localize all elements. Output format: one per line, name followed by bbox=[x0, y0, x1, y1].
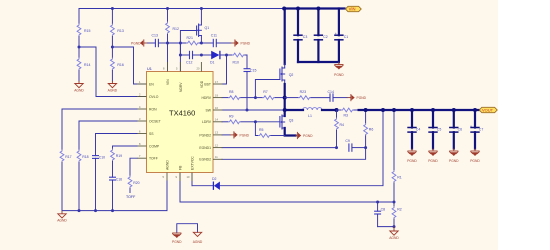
capacitor C15 bbox=[244, 55, 257, 110]
node R4 top bbox=[335, 108, 339, 112]
svg-text:EXTVCC: EXTVCC bbox=[190, 156, 194, 170]
svg-text:+: + bbox=[335, 32, 337, 36]
resistor R13 bbox=[111, 9, 124, 48]
wire AGND rail bbox=[62, 181, 167, 211]
wire LDRV to Q3 gate bbox=[255, 121, 280, 123]
svg-text:R23: R23 bbox=[300, 90, 306, 94]
svg-text:C11: C11 bbox=[211, 33, 217, 37]
node VDD row junctions bbox=[166, 42, 169, 45]
wire PGND/AGND tie bbox=[177, 224, 198, 233]
svg-text:PGND: PGND bbox=[407, 159, 417, 163]
resistor R12 bbox=[166, 9, 179, 44]
svg-text:C9: C9 bbox=[345, 139, 350, 143]
svg-text:C10: C10 bbox=[99, 156, 105, 160]
svg-text:VIN: VIN bbox=[349, 7, 356, 12]
pin OCSET 3 bbox=[137, 117, 161, 124]
svg-text:LDRV: LDRV bbox=[202, 120, 212, 124]
ground PGND input caps bbox=[334, 62, 344, 77]
capacitor C14 snubber bbox=[328, 90, 348, 102]
svg-text:R17: R17 bbox=[65, 155, 71, 159]
ground PGND C6 bbox=[449, 149, 459, 163]
wire OVLO route bbox=[79, 47, 147, 97]
wire NDRV node to C12 row bbox=[179, 43, 181, 55]
pin EN 1 bbox=[137, 80, 154, 87]
wire EGND2 row bbox=[222, 148, 366, 160]
svg-text:Q1: Q1 bbox=[205, 26, 210, 30]
pin NDRV top bbox=[176, 62, 183, 92]
wire FB route bbox=[180, 173, 394, 203]
svg-text:R6: R6 bbox=[369, 128, 374, 132]
capacitor C13 bbox=[148, 33, 168, 47]
svg-text:EN: EN bbox=[149, 82, 154, 86]
svg-text:RON: RON bbox=[149, 107, 157, 111]
svg-text:AGND: AGND bbox=[389, 236, 399, 240]
svg-text:PGND: PGND bbox=[303, 134, 313, 138]
svg-text:PGND: PGND bbox=[240, 133, 250, 137]
svg-text:AGND: AGND bbox=[74, 89, 84, 93]
svg-text:R9: R9 bbox=[229, 114, 234, 118]
svg-text:VOUT: VOUT bbox=[482, 108, 494, 113]
resistor R8 on HDRV bbox=[222, 90, 255, 99]
pin VDD top bbox=[197, 62, 204, 88]
node SW bottom bbox=[283, 108, 287, 112]
node C15 to SW line bbox=[246, 109, 249, 112]
node C12 left bbox=[179, 54, 182, 57]
node Q2 gate junction bbox=[254, 96, 257, 99]
capacitor C6 bbox=[449, 108, 462, 149]
svg-text:AGND: AGND bbox=[165, 160, 169, 170]
svg-text:PGND2: PGND2 bbox=[199, 133, 211, 137]
wire EGND1 row bbox=[222, 147, 337, 149]
svg-text:OVLO: OVLO bbox=[149, 95, 159, 99]
svg-text:TX4160: TX4160 bbox=[169, 108, 195, 117]
ground PGND left of C13 bbox=[131, 39, 148, 46]
svg-text:C4: C4 bbox=[416, 127, 421, 131]
node R6 top bbox=[364, 108, 368, 112]
wire Q2 drain column thick bbox=[284, 9, 286, 65]
port VIN bbox=[344, 6, 361, 11]
svg-text:R21: R21 bbox=[187, 36, 193, 40]
svg-text:Q3: Q3 bbox=[289, 118, 294, 122]
pin EGND1 12 bbox=[199, 143, 222, 150]
svg-text:AGND: AGND bbox=[57, 219, 67, 223]
svg-text:TOFF: TOFF bbox=[126, 195, 136, 199]
ground PGND right of C11 bbox=[231, 39, 251, 46]
node R12 top bbox=[166, 7, 169, 10]
pin EXTVCC bottom bbox=[187, 156, 195, 181]
node Q3 gate junction bbox=[254, 120, 257, 123]
wire Q3 drain thick bbox=[284, 110, 286, 116]
pin AGND bottom bbox=[163, 160, 170, 181]
capacitor C10 on SS bbox=[92, 134, 137, 211]
pin OVLO 2 bbox=[137, 92, 159, 99]
inductor L1 bbox=[303, 108, 322, 118]
svg-text:R2: R2 bbox=[397, 207, 402, 211]
svg-text:C5: C5 bbox=[437, 127, 442, 131]
wire SW node column thick bbox=[284, 84, 286, 110]
svg-text:R19: R19 bbox=[116, 154, 122, 158]
resistor R4 bbox=[335, 110, 344, 148]
capacitor C2 bbox=[314, 9, 328, 63]
svg-text:D1: D1 bbox=[210, 61, 215, 65]
svg-text:R13: R13 bbox=[117, 29, 123, 33]
svg-text:NDRV: NDRV bbox=[179, 82, 183, 92]
svg-text:EGND1: EGND1 bbox=[199, 146, 211, 150]
pin LDRV 14 bbox=[202, 118, 222, 125]
node R13/R16 junction bbox=[111, 46, 114, 49]
node R2 bottom bbox=[393, 225, 396, 228]
resistor R21 bbox=[168, 36, 214, 45]
node C16 bottom bbox=[111, 209, 114, 212]
svg-text:C1: C1 bbox=[344, 35, 349, 39]
capacitor C12 bbox=[180, 51, 201, 65]
resistor R1 feedback top bbox=[392, 110, 402, 202]
resistor R17 on RON bbox=[60, 109, 137, 211]
svg-text:R10: R10 bbox=[233, 61, 239, 65]
pin COMP 8 bbox=[137, 142, 160, 149]
svg-text:R4: R4 bbox=[340, 123, 345, 127]
svg-text:EGND2: EGND2 bbox=[199, 158, 211, 162]
resistor R9 on LDRV bbox=[222, 114, 255, 123]
svg-text:C2: C2 bbox=[323, 35, 328, 39]
node SW/R7 junction bbox=[283, 96, 287, 100]
transistor Q2 bbox=[280, 64, 294, 84]
capacitor C11 bbox=[211, 33, 231, 47]
svg-text:PGND: PGND bbox=[449, 159, 459, 163]
op-amp U1 TX4160 controller bbox=[147, 67, 214, 173]
capacitor C3 bbox=[293, 9, 307, 63]
svg-text:C7: C7 bbox=[479, 127, 484, 131]
svg-text:C6: C6 bbox=[458, 127, 463, 131]
node BST/boot junction bbox=[225, 54, 228, 57]
node R15/R14 junction bbox=[78, 46, 81, 49]
ground PGND C5 bbox=[428, 149, 438, 163]
node R18 bottom bbox=[78, 209, 81, 212]
svg-text:PGND: PGND bbox=[428, 159, 438, 163]
pin RON 4 bbox=[137, 105, 157, 112]
svg-text:PGND: PGND bbox=[334, 73, 344, 77]
svg-text:Q2: Q2 bbox=[289, 73, 294, 77]
node C8 top bbox=[376, 201, 379, 204]
svg-text:R5: R5 bbox=[259, 128, 264, 132]
svg-text:PGND: PGND bbox=[470, 159, 480, 163]
svg-text:+: + bbox=[470, 125, 472, 129]
svg-text:C12: C12 bbox=[186, 61, 192, 65]
ground PGND C4 bbox=[407, 149, 417, 163]
capacitor C1 polarized bbox=[334, 9, 348, 63]
pin SS 6 bbox=[137, 129, 154, 136]
ground AGND tie bbox=[193, 232, 203, 244]
wire BST riser bbox=[222, 55, 227, 84]
pin HDRV 19 bbox=[201, 93, 222, 100]
wire EXTVCC riser from output bbox=[220, 110, 383, 186]
diode D2 bbox=[192, 177, 220, 190]
svg-text:U1: U1 bbox=[147, 67, 152, 71]
svg-text:R18: R18 bbox=[82, 155, 88, 159]
ground PGND Q3 source bbox=[296, 132, 314, 139]
node C2 top bbox=[316, 7, 320, 11]
svg-text:SS: SS bbox=[149, 132, 154, 136]
svg-text:R14: R14 bbox=[84, 63, 90, 67]
svg-text:C13: C13 bbox=[152, 33, 158, 37]
resistor R6 sense leg bbox=[364, 110, 374, 148]
resistor R10 bbox=[227, 53, 248, 64]
pin PGND2 13 bbox=[199, 131, 222, 138]
svg-text:R7: R7 bbox=[263, 90, 268, 94]
ground AGND feedback bbox=[389, 227, 399, 240]
svg-text:C8: C8 bbox=[381, 207, 386, 211]
capacitor C5 bbox=[428, 108, 441, 149]
wire EN route bbox=[112, 47, 146, 84]
ground PGND C7 bbox=[470, 149, 480, 163]
pin SW 16 bbox=[206, 106, 223, 113]
wire L1 to R3 thick bbox=[322, 109, 337, 111]
svg-text:PGND: PGND bbox=[241, 42, 251, 46]
svg-text:COMP: COMP bbox=[149, 144, 160, 148]
transistor Q3 bbox=[280, 115, 294, 130]
node R13 top bbox=[111, 7, 114, 10]
resistor R5 gate pulldown Q3 bbox=[255, 122, 284, 138]
node C3 top bbox=[296, 7, 300, 11]
svg-text:OCSET: OCSET bbox=[149, 119, 161, 123]
diode D1 bbox=[201, 51, 226, 65]
node VDD col / C12 right bbox=[200, 54, 203, 57]
wire EXTVCC pin drop bbox=[191, 173, 193, 186]
pin TOFF 7 bbox=[137, 154, 158, 161]
svg-text:R15: R15 bbox=[84, 29, 90, 33]
svg-text:C15: C15 bbox=[250, 69, 256, 73]
svg-text:VDD: VDD bbox=[200, 80, 204, 88]
svg-text:PGND: PGND bbox=[131, 42, 141, 46]
wire SW to L1 thick bbox=[285, 109, 303, 111]
ground AGND under R16 bbox=[108, 81, 118, 93]
ground AGND rail symbol bbox=[57, 211, 67, 223]
svg-text:R3: R3 bbox=[344, 114, 349, 118]
node EXTVCC riser top bbox=[381, 108, 385, 112]
svg-text:AGND: AGND bbox=[108, 89, 118, 93]
svg-text:C14: C14 bbox=[328, 90, 334, 94]
pin EGND2 11 bbox=[199, 155, 222, 162]
wire Q3 source thick to ground bbox=[285, 128, 296, 136]
wire output rail thick bbox=[359, 109, 479, 111]
capacitor C8 bbox=[374, 202, 385, 227]
wire Q1 gate to NDRV column bbox=[180, 31, 196, 72]
svg-text:VIN: VIN bbox=[166, 79, 170, 85]
resistor R18 on OCSET bbox=[77, 121, 137, 211]
ground PGND tie bbox=[172, 233, 182, 244]
svg-text:R12: R12 bbox=[173, 27, 179, 31]
resistor R23 snubber bbox=[285, 90, 330, 99]
node input rail start bbox=[282, 7, 286, 11]
svg-text:R20: R20 bbox=[133, 181, 139, 185]
svg-text:SW: SW bbox=[206, 108, 212, 112]
svg-text:R1: R1 bbox=[397, 175, 402, 179]
resistor R19 on COMP bbox=[111, 146, 137, 177]
svg-text:FB: FB bbox=[178, 165, 182, 170]
pin VIN top bbox=[163, 62, 170, 85]
pin FB bottom bbox=[176, 165, 183, 181]
svg-text:HDRV: HDRV bbox=[201, 96, 211, 100]
svg-text:PGND: PGND bbox=[172, 240, 182, 244]
svg-text:C16: C16 bbox=[116, 177, 122, 181]
transistor Q1 bbox=[197, 9, 210, 44]
port VOUT bbox=[479, 107, 497, 112]
svg-text:PGND: PGND bbox=[357, 96, 367, 100]
resistor R15 bbox=[77, 9, 90, 48]
resistor R2 feedback bottom bbox=[392, 202, 402, 227]
node R1 top bbox=[392, 108, 396, 112]
svg-text:R8: R8 bbox=[229, 90, 234, 94]
svg-text:BST: BST bbox=[204, 82, 211, 86]
svg-text:C3: C3 bbox=[303, 35, 308, 39]
node R4/C9 junction bbox=[335, 146, 338, 149]
pin BST 17 bbox=[204, 80, 222, 87]
capacitor C9 bbox=[345, 139, 365, 152]
node VDD/Q1 top bbox=[200, 7, 203, 10]
resistor R14 bbox=[77, 47, 90, 81]
svg-text:TOFF: TOFF bbox=[149, 157, 158, 161]
svg-text:AGND: AGND bbox=[193, 240, 203, 244]
capacitor C16 bbox=[109, 177, 122, 210]
svg-text:R16: R16 bbox=[117, 63, 123, 67]
wire SW pin row bbox=[222, 109, 285, 111]
ground PGND snubber bbox=[347, 94, 367, 101]
capacitor C4 bbox=[407, 108, 420, 149]
node R6 bottom bbox=[364, 146, 367, 149]
node FB junction bbox=[393, 201, 396, 204]
resistor R20 on TOFF bbox=[128, 158, 140, 192]
wire top rail bbox=[79, 8, 285, 10]
wire C8/R2 bottom bar bbox=[378, 226, 394, 228]
capacitor C7 polarized bbox=[470, 108, 483, 149]
resistor R7 gate pulldown bbox=[255, 90, 284, 99]
resistor R16 bbox=[111, 47, 124, 81]
wire input cap ground bar bbox=[298, 61, 339, 63]
node C10 bottom bbox=[94, 209, 97, 212]
ground AGND under R14 bbox=[74, 81, 84, 93]
resistor R3 sense bbox=[337, 108, 360, 117]
wire Q2 gate route bbox=[255, 80, 280, 98]
wire VIN pin column bbox=[167, 43, 169, 72]
wire input rail thick bbox=[284, 7, 344, 9]
svg-text:D2: D2 bbox=[212, 177, 217, 181]
ground PGND pin arrow bbox=[222, 131, 250, 138]
svg-text:L1: L1 bbox=[308, 114, 312, 118]
